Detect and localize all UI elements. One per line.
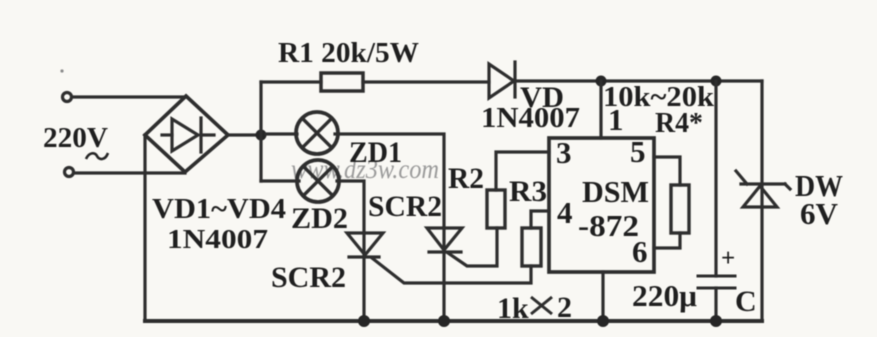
wire right branch bbox=[760, 81, 763, 321]
svg-text:4: 4 bbox=[557, 195, 573, 230]
wire top AC input bbox=[72, 95, 186, 98]
wire node C to capacitor bbox=[714, 81, 717, 276]
zener DW triangle bbox=[743, 186, 777, 207]
svg-text:1: 1 bbox=[608, 102, 624, 137]
wire IC ground to bottom rail bbox=[601, 272, 604, 321]
resistor R3 bbox=[522, 228, 541, 266]
bridge diode triangle bbox=[172, 119, 198, 151]
wire capacitor to bottom rail bbox=[714, 288, 717, 321]
thyristor SCR2 right triangle bbox=[427, 228, 462, 250]
wire pin 1 to node B bbox=[599, 81, 602, 138]
wire SCR2 right gate to R2 bbox=[448, 228, 497, 266]
terminal bottom-left bbox=[65, 168, 74, 177]
svg-text:SCR2: SCR2 bbox=[271, 261, 346, 294]
wire SCR2 right cathode to bottom rail bbox=[442, 228, 445, 321]
node C junction dot bbox=[711, 76, 722, 87]
svg-text:1N4007: 1N4007 bbox=[481, 103, 580, 134]
svg-text:SCR2: SCR2 bbox=[368, 190, 442, 223]
wire bottom AC input bbox=[74, 171, 185, 174]
wire VD to top right bbox=[515, 79, 762, 82]
svg-text:-872: -872 bbox=[578, 208, 639, 243]
svg-text:220μ: 220μ bbox=[632, 278, 697, 313]
junction dot SCR2 left on rail bbox=[358, 315, 370, 327]
wire ZD1 to SCR2 right anode bbox=[335, 134, 444, 228]
svg-text:5: 5 bbox=[630, 134, 646, 169]
svg-text:2: 2 bbox=[557, 291, 572, 324]
wire pin 6 to R4 bbox=[654, 233, 680, 248]
svg-text:DSM: DSM bbox=[582, 174, 649, 209]
lamp ZD2 bbox=[297, 160, 339, 202]
zener DW bar bbox=[741, 182, 785, 185]
svg-text:C: C bbox=[735, 285, 757, 318]
wire to R1 bbox=[261, 80, 321, 83]
svg-text:3: 3 bbox=[556, 135, 572, 170]
zener DW bar right tick bbox=[785, 184, 790, 189]
wire SCR2 left cathode to bottom rail bbox=[362, 233, 365, 321]
diode VD triangle bbox=[489, 64, 514, 98]
svg-text:R1 20k/5W: R1 20k/5W bbox=[278, 37, 419, 69]
svg-text:220V: 220V bbox=[43, 122, 108, 154]
junction dot IC ground on rail bbox=[597, 315, 609, 327]
wire ZD2 to SCR2 left anode bbox=[337, 181, 364, 233]
wire node A to ZD1 bbox=[266, 132, 297, 135]
diode VD cathode bar bbox=[513, 62, 516, 97]
svg-text:+: + bbox=[721, 245, 735, 272]
wire R2 to pin 3 bbox=[496, 152, 549, 190]
node B junction dot bbox=[596, 76, 607, 87]
wire pin 5 to R4 bbox=[654, 157, 680, 185]
bottom rail wire bbox=[145, 319, 762, 323]
label ~ AC symbol bbox=[86, 153, 108, 159]
svg-text:6V: 6V bbox=[800, 196, 839, 231]
node A junction dot bbox=[256, 130, 267, 141]
lamp ZD1 bbox=[296, 112, 338, 154]
thyristor SCR2 right cathode bar bbox=[429, 250, 461, 253]
svg-text:1N4007: 1N4007 bbox=[167, 224, 268, 254]
svg-text:ZD1: ZD1 bbox=[349, 136, 402, 169]
svg-text:ZD2: ZD2 bbox=[291, 202, 348, 235]
wire node A to ZD2 bbox=[261, 179, 299, 182]
resistor R2 bbox=[487, 190, 505, 228]
junction dot capacitor on rail bbox=[710, 315, 722, 327]
wire SCR2 left gate to R3 bbox=[372, 258, 531, 283]
resistor R4 bbox=[671, 185, 689, 233]
wire R3 to pin 4 bbox=[531, 211, 549, 228]
wire node A riser bbox=[259, 82, 262, 181]
paper speck bbox=[60, 69, 63, 72]
wire R1 to VD bbox=[363, 80, 489, 83]
op-amp U1 DSM-872 IC box bbox=[549, 138, 654, 272]
svg-text:R2: R2 bbox=[448, 162, 484, 195]
resistor R1 bbox=[321, 73, 363, 91]
thyristor SCR2 left cathode bar bbox=[349, 255, 379, 258]
bridge rectifier VD1~VD4 diamond bbox=[145, 96, 228, 172]
bridge diode leads bbox=[162, 133, 172, 136]
zener DW bar left tick bbox=[736, 171, 747, 184]
capacitor C plates bbox=[698, 275, 735, 278]
terminal top-left bbox=[63, 93, 72, 102]
bridge diode cathode bar bbox=[199, 118, 202, 152]
svg-text:VD1~VD4: VD1~VD4 bbox=[152, 193, 286, 225]
junction dot SCR2 right on rail bbox=[438, 315, 450, 327]
wire bridge output to node A bbox=[228, 133, 261, 136]
svg-text:1k: 1k bbox=[497, 292, 529, 325]
thyristor SCR2 left triangle bbox=[347, 233, 383, 255]
svg-text:R4*: R4* bbox=[655, 108, 703, 139]
wire bridge negative to bottom rail bbox=[143, 135, 146, 321]
svg-text:R3: R3 bbox=[509, 175, 547, 208]
